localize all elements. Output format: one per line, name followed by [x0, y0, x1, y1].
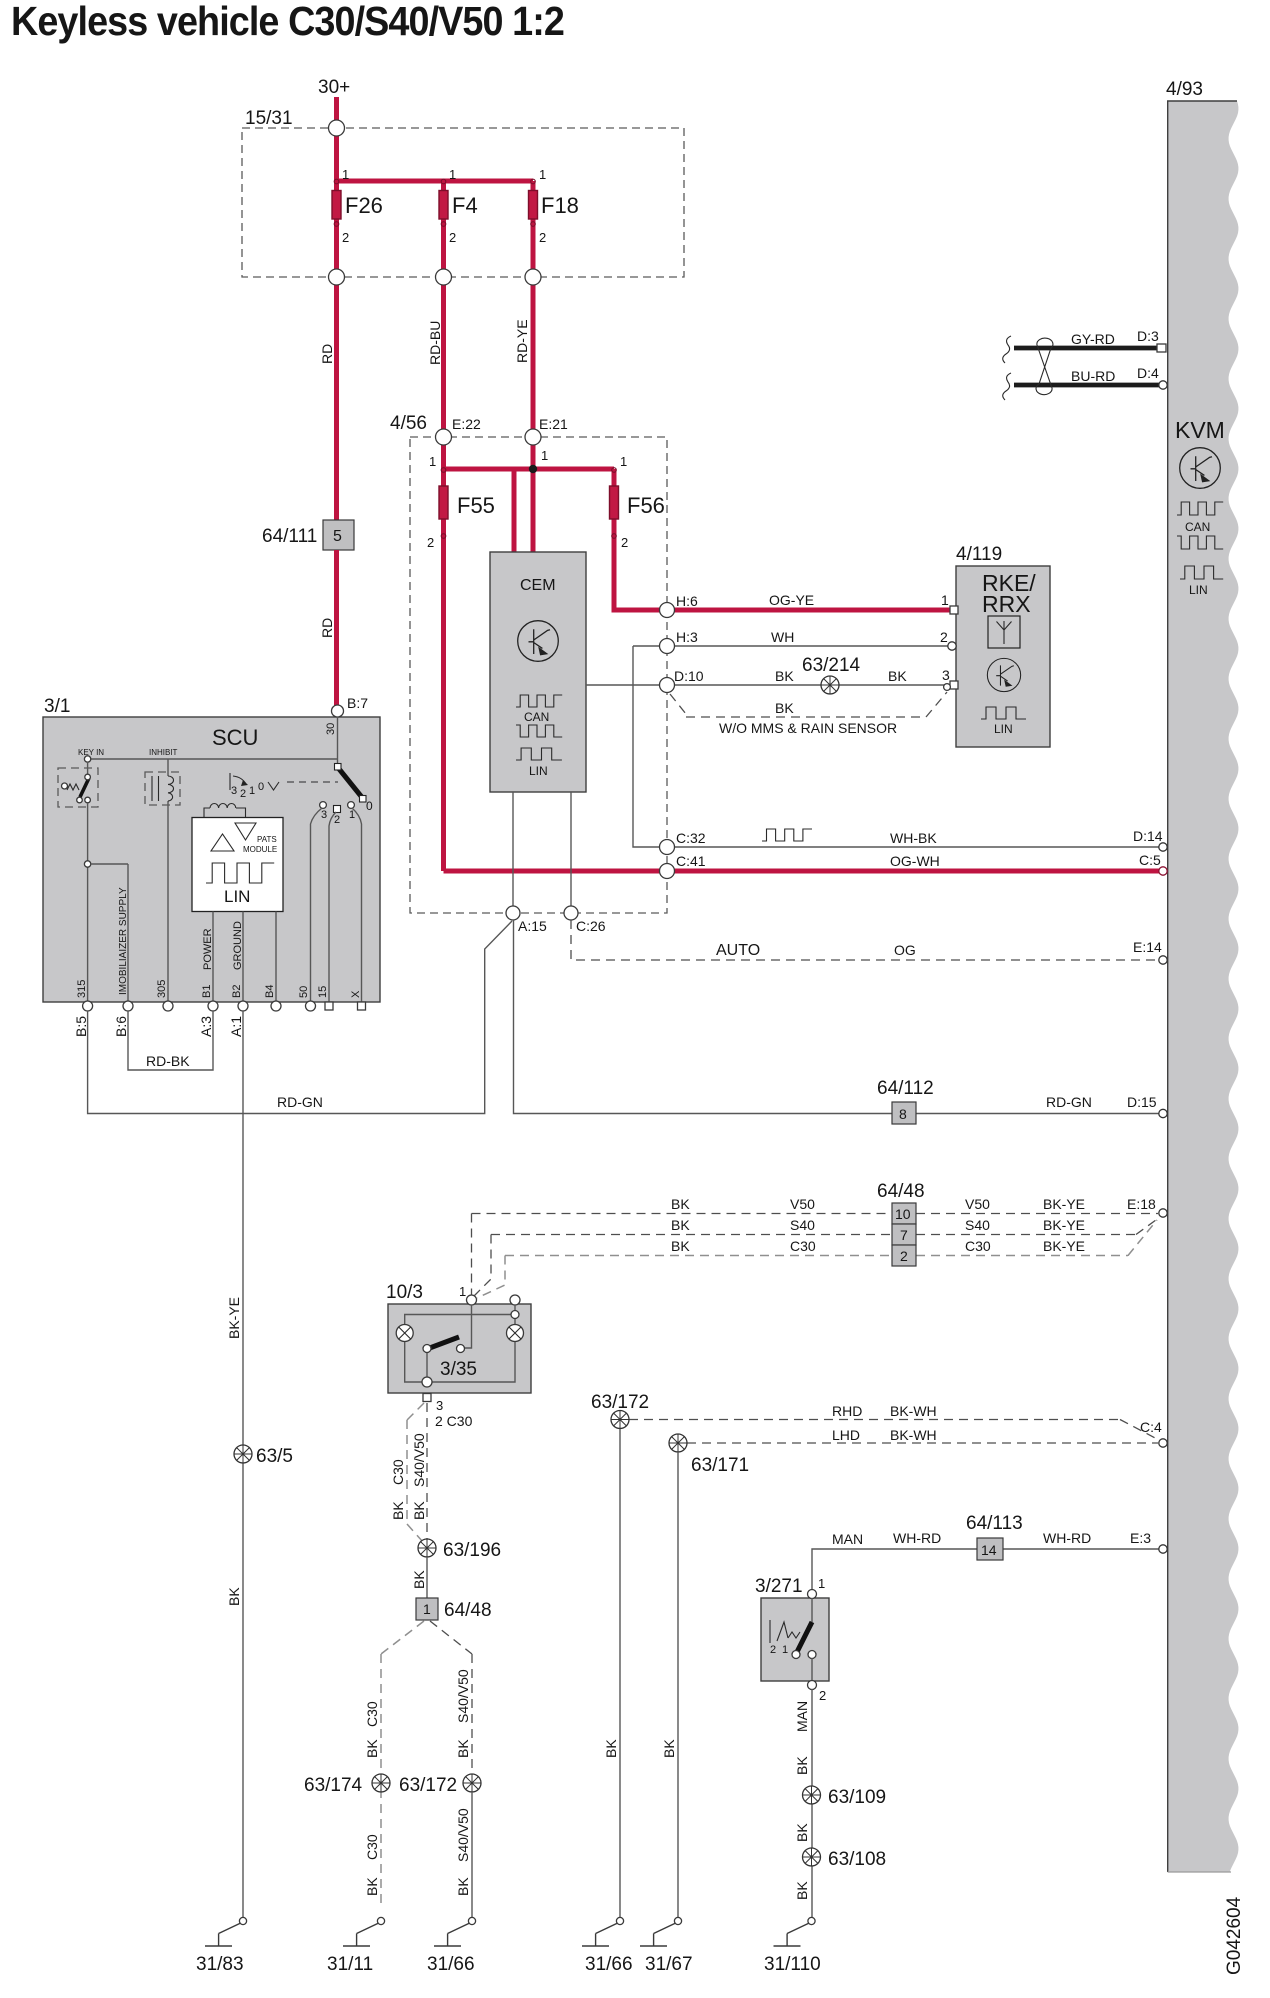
- svg-text:C30: C30: [364, 1834, 380, 1860]
- svg-text:CEM: CEM: [520, 577, 556, 594]
- svg-text:RRX: RRX: [982, 591, 1031, 617]
- svg-text:LHD: LHD: [832, 1427, 860, 1443]
- svg-text:OG: OG: [894, 942, 916, 958]
- svg-text:BK: BK: [364, 1739, 380, 1758]
- wire PATS B1: [212, 912, 214, 1004]
- svg-text:BU-RD: BU-RD: [1071, 368, 1115, 384]
- wire PATS B2: [242, 912, 244, 1004]
- wire LHD BK-WH dashed: [687, 1442, 1158, 1444]
- svg-text:15/31: 15/31: [245, 108, 293, 129]
- svg-text:63/171: 63/171: [691, 1455, 749, 1476]
- svg-text:BK-WH: BK-WH: [890, 1427, 937, 1443]
- svg-text:LIN: LIN: [529, 764, 548, 778]
- svg-text:KVM: KVM: [1175, 417, 1225, 443]
- wire 315: [87, 803, 89, 1003]
- node F26 out: [329, 269, 345, 285]
- svg-text:15: 15: [317, 986, 329, 998]
- svg-text:A:3: A:3: [198, 1016, 214, 1037]
- svg-text:2: 2: [449, 230, 456, 245]
- svg-text:64/48: 64/48: [877, 1181, 925, 1202]
- svg-text:D:4: D:4: [1137, 365, 1159, 381]
- svg-text:BK-YE: BK-YE: [226, 1297, 242, 1339]
- svg-text:GROUND: GROUND: [232, 921, 244, 970]
- svg-text:C:5: C:5: [1139, 852, 1161, 868]
- splice 63/109: [803, 1786, 821, 1804]
- svg-text:G042604: G042604: [1224, 1896, 1245, 1975]
- svg-text:1: 1: [782, 1644, 788, 1656]
- svg-text:E:14: E:14: [1133, 939, 1162, 955]
- svg-text:1: 1: [449, 167, 456, 182]
- ground 31/67: [640, 1917, 682, 1946]
- node branch imob supply: [84, 861, 90, 867]
- wire SCU keyin bus: [88, 758, 338, 760]
- ECU box 3/1 SCU: [43, 717, 380, 1002]
- connector 64/113 pin 14: [977, 1538, 1003, 1560]
- wire RD-GN right run from A:15: [514, 920, 1164, 1114]
- wire F18 drop: [531, 181, 536, 437]
- svg-text:64/48: 64/48: [444, 1600, 492, 1621]
- svg-text:BK: BK: [888, 668, 907, 684]
- svg-text:B2: B2: [231, 985, 243, 998]
- wire BK S40 dashed row: [491, 1217, 1160, 1235]
- svg-text:31/66: 31/66: [427, 1954, 475, 1975]
- svg-text:7: 7: [900, 1227, 908, 1243]
- svg-text:BK-YE: BK-YE: [1043, 1238, 1085, 1254]
- wire MAN WH-RD to E:3: [812, 1549, 1163, 1592]
- svg-text:BK: BK: [390, 1501, 406, 1520]
- svg-text:2: 2: [819, 1688, 826, 1703]
- svg-text:E:22: E:22: [452, 416, 481, 432]
- connector 64/112 pin 8: [892, 1102, 916, 1124]
- svg-text:1: 1: [429, 454, 436, 469]
- switch ignition position symbol: [229, 773, 231, 790]
- svg-text:64/111: 64/111: [262, 526, 317, 547]
- KVM LIN symbol: [1180, 566, 1223, 579]
- CEM K icon: [518, 621, 559, 662]
- PATS module box: [192, 818, 283, 912]
- wire V50 drop to 10/3 pin1: [471, 1214, 473, 1296]
- wire RD-BK loop B:6 to A:3: [128, 1011, 213, 1070]
- svg-text:B:6: B:6: [113, 1016, 129, 1037]
- node D:10: [660, 678, 675, 693]
- wire 30+ feed (RD): [334, 97, 339, 520]
- splice 63/108: [803, 1848, 821, 1866]
- svg-text:8: 8: [899, 1106, 907, 1122]
- ground 31/66: [434, 1917, 476, 1946]
- svg-text:Keyless vehicle C30/S40/V50 1:: Keyless vehicle C30/S40/V50 1:2: [11, 0, 564, 44]
- wire BK V50 dashed row: [472, 1213, 1159, 1215]
- svg-text:PATS: PATS: [257, 835, 277, 844]
- svg-text:BK: BK: [794, 1823, 810, 1842]
- svg-text:1: 1: [539, 167, 546, 182]
- node H:3: [660, 639, 675, 654]
- svg-text:BK: BK: [794, 1756, 810, 1775]
- wire RD-YE through E:21 to CEM: [531, 437, 536, 552]
- svg-text:1: 1: [249, 785, 255, 797]
- wire RHD BK-WH dashed: [629, 1420, 1159, 1441]
- wire C30 drop from pin 3 (grey dashed): [407, 1403, 424, 1542]
- svg-text:B:5: B:5: [73, 1016, 89, 1037]
- svg-text:31/11: 31/11: [327, 1954, 373, 1975]
- svg-text:D:14: D:14: [1133, 828, 1163, 844]
- svg-text:B:7: B:7: [347, 695, 368, 711]
- ground 31/11: [343, 1917, 385, 1946]
- wire GY-RD (thick, to D:3): [1014, 346, 1160, 351]
- svg-text:C30: C30: [364, 1701, 380, 1727]
- svg-text:3/1: 3/1: [44, 696, 70, 717]
- svg-text:F55: F55: [457, 493, 495, 518]
- connector 64/111 pin 5: [323, 520, 354, 550]
- svg-text:1: 1: [541, 448, 548, 463]
- wire contact 1 to pin X: [352, 808, 362, 1003]
- pin 3 bottom: [423, 1394, 431, 1402]
- svg-text:C30: C30: [965, 1238, 991, 1254]
- RKE LIN symbol: [981, 707, 1026, 719]
- wire BU-RD (thick, to D:4): [1014, 383, 1159, 388]
- svg-text:31/110: 31/110: [764, 1954, 821, 1975]
- svg-text:C30: C30: [790, 1238, 816, 1254]
- node pin1 10/3: [467, 1295, 477, 1305]
- svg-text:BK: BK: [411, 1501, 427, 1520]
- svg-text:1: 1: [342, 167, 349, 182]
- wire split below 64/48: [381, 1621, 424, 1905]
- node E:21: [525, 429, 541, 445]
- svg-text:F4: F4: [452, 193, 478, 218]
- svg-text:WH-RD: WH-RD: [893, 1530, 941, 1546]
- svg-text:BK: BK: [226, 1587, 242, 1606]
- svg-text:F26: F26: [345, 193, 383, 218]
- svg-text:F18: F18: [541, 193, 579, 218]
- svg-text:30+: 30+: [318, 77, 350, 98]
- node F18 out: [525, 269, 541, 285]
- svg-text:WH: WH: [771, 629, 794, 645]
- splice 63/174: [372, 1774, 390, 1792]
- svg-text:64/112: 64/112: [877, 1078, 934, 1099]
- svg-text:BK-YE: BK-YE: [1043, 1217, 1085, 1233]
- wire H:3 branch down to C:32: [633, 646, 660, 847]
- wire F55 to C:41 run: [441, 519, 446, 871]
- svg-text:H:3: H:3: [676, 629, 698, 645]
- node pin 1: [808, 1590, 817, 1599]
- svg-text:INHIBIT: INHIBIT: [149, 748, 178, 757]
- svg-text:C:32: C:32: [676, 830, 706, 846]
- svg-text:BK-YE: BK-YE: [1043, 1196, 1085, 1212]
- terminal D:14: [1159, 843, 1167, 851]
- KVM CAN symbol: [1177, 502, 1223, 515]
- svg-text:1: 1: [818, 1576, 825, 1591]
- node H:6: [660, 603, 675, 618]
- pin 3 square: [950, 681, 958, 689]
- connector 64/48 pins 10/7/2: [892, 1203, 916, 1224]
- svg-text:63/108: 63/108: [828, 1849, 886, 1870]
- CEM LIN symbol: [516, 748, 562, 760]
- fuse F4: [439, 191, 448, 220]
- svg-text:BK-WH: BK-WH: [890, 1403, 937, 1419]
- svg-text:A:15: A:15: [518, 918, 547, 934]
- wire RD to SCU: [334, 550, 339, 706]
- svg-text:305: 305: [156, 980, 168, 998]
- svg-text:H:6: H:6: [676, 593, 698, 609]
- svg-text:BK: BK: [661, 1739, 677, 1758]
- svg-text:2: 2: [940, 629, 948, 645]
- ECU box 4/119 RKE/RRX: [956, 566, 1050, 747]
- connector 64/48 pin 1: [416, 1598, 438, 1620]
- switch contacts 3 2 1: [320, 802, 327, 809]
- svg-text:RHD: RHD: [832, 1403, 862, 1419]
- terminal C:4: [1159, 1439, 1167, 1447]
- svg-text:BK: BK: [455, 1739, 471, 1758]
- node 15/31 top connector: [329, 120, 345, 136]
- wire CEM feed 1: [512, 469, 517, 552]
- switch SCU main (30) arm: [338, 767, 363, 798]
- wire imobiliaizer supply: [91, 864, 128, 1003]
- svg-text:BK: BK: [671, 1217, 690, 1233]
- svg-text:RD-GN: RD-GN: [1046, 1094, 1092, 1110]
- fuse F56: [610, 486, 619, 519]
- svg-text:RD-BU: RD-BU: [427, 321, 443, 365]
- connector housing 4/56 dashed box: [410, 437, 667, 913]
- wire fuse bus: [337, 179, 534, 184]
- RKE K icon: [987, 658, 1020, 691]
- svg-text:63/196: 63/196: [443, 1540, 501, 1561]
- CEM CAN symbol: [516, 695, 562, 707]
- svg-text:1: 1: [620, 454, 627, 469]
- svg-text:SCU: SCU: [212, 725, 258, 750]
- svg-text:S40/V50: S40/V50: [455, 1808, 471, 1862]
- svg-text:3: 3: [942, 667, 950, 683]
- svg-text:E:3: E:3: [1130, 1530, 1151, 1546]
- svg-text:S40/V50: S40/V50: [455, 1669, 471, 1723]
- svg-text:BK: BK: [411, 1570, 427, 1589]
- svg-text:3/271: 3/271: [755, 1576, 803, 1597]
- svg-text:63/172: 63/172: [591, 1392, 649, 1413]
- svg-text:IMOBILIAIZER SUPPLY: IMOBILIAIZER SUPPLY: [118, 887, 129, 995]
- svg-text:LIN: LIN: [1189, 583, 1208, 597]
- SCU bottom pins: [83, 1001, 93, 1011]
- wire BK C30 dashed row (grey): [505, 1220, 1157, 1256]
- svg-text:14: 14: [981, 1542, 997, 1558]
- node C:26: [564, 906, 578, 920]
- wire C30 drop (grey): [477, 1256, 505, 1299]
- terminal D:3 square: [1157, 344, 1166, 352]
- svg-text:B1: B1: [201, 985, 213, 998]
- svg-text:2: 2: [334, 814, 340, 826]
- svg-text:D:15: D:15: [1127, 1094, 1157, 1110]
- splice 63/196: [418, 1539, 436, 1557]
- wire CEM to C:26: [570, 792, 572, 906]
- wire AUTO OG dashed: [571, 920, 1163, 960]
- svg-text:POWER: POWER: [202, 928, 214, 970]
- svg-text:50: 50: [298, 986, 310, 998]
- svg-text:4/56: 4/56: [390, 413, 427, 434]
- svg-text:KEY IN: KEY IN: [78, 748, 104, 757]
- junction dot E:21/bus: [529, 465, 537, 473]
- svg-text:BK: BK: [364, 1877, 380, 1896]
- wire fuse link bus F55-F56: [444, 467, 615, 472]
- ground 31/110: [774, 1917, 816, 1946]
- antenna symbol: [988, 616, 1020, 648]
- svg-text:S40: S40: [965, 1217, 990, 1233]
- switch internals: [811, 1598, 813, 1622]
- node A:15: [506, 906, 520, 920]
- wire RD-BU through E:22 and F55: [441, 437, 446, 486]
- svg-text:E:21: E:21: [539, 416, 568, 432]
- svg-text:BK: BK: [775, 668, 794, 684]
- terminal E:14: [1159, 956, 1167, 964]
- svg-text:RD-YE: RD-YE: [514, 319, 530, 363]
- svg-text:A:1: A:1: [228, 1016, 244, 1037]
- svg-text:RD: RD: [319, 344, 335, 364]
- svg-text:2: 2: [770, 1644, 776, 1656]
- svg-text:C30: C30: [390, 1459, 406, 1485]
- inductor PATS antenna coil: [204, 808, 210, 817]
- svg-text:2: 2: [240, 788, 246, 800]
- wire PATS B4: [275, 912, 277, 1004]
- wire BK S40/V50 to ground: [471, 1792, 473, 1917]
- svg-text:WH-BK: WH-BK: [890, 830, 937, 846]
- twisted pair symbol: [1036, 338, 1053, 395]
- wire F56 to H:6: [614, 469, 952, 610]
- fuse F26: [332, 191, 341, 220]
- lamp unit 10/3 box: [388, 1304, 531, 1393]
- cable cut hooks: [1003, 336, 1011, 363]
- svg-text:63/214: 63/214: [802, 655, 861, 676]
- terminal E:3: [1159, 1545, 1167, 1553]
- svg-text:2: 2: [539, 230, 546, 245]
- svg-text:4/119: 4/119: [956, 544, 1002, 565]
- svg-text:OG-WH: OG-WH: [890, 853, 940, 869]
- node C:41: [660, 864, 675, 879]
- svg-text:4/93: 4/93: [1166, 79, 1203, 100]
- svg-text:10: 10: [895, 1206, 911, 1222]
- wire BK-YE from A:1 to ground 31/83: [242, 1011, 244, 1917]
- svg-text:F56: F56: [627, 493, 665, 518]
- svg-text:OG-YE: OG-YE: [769, 592, 814, 608]
- svg-text:63/174: 63/174: [304, 1775, 363, 1796]
- ECU box CEM: [490, 552, 586, 792]
- svg-text:CAN: CAN: [1185, 520, 1210, 534]
- svg-text:CAN: CAN: [524, 710, 549, 724]
- svg-text:315: 315: [76, 980, 88, 998]
- svg-text:63/172: 63/172: [399, 1775, 457, 1796]
- wire WH H:3 to RKE pin2: [633, 645, 952, 647]
- wire W/O MMS dashed bypass: [670, 692, 947, 717]
- fuse F18: [529, 191, 538, 220]
- wire S40/V50 drop from pin 3: [426, 1403, 428, 1539]
- svg-text:0: 0: [258, 781, 264, 793]
- wire OG-WH C:41 to KVM C:5: [444, 869, 1164, 874]
- svg-text:0: 0: [366, 799, 373, 813]
- svg-text:2 C30: 2 C30: [435, 1413, 473, 1429]
- svg-text:BK: BK: [671, 1196, 690, 1212]
- ground 31/83: [205, 1917, 247, 1946]
- svg-text:C:4: C:4: [1140, 1419, 1162, 1435]
- pin 1 square: [950, 606, 958, 614]
- splice 63/214: [821, 676, 839, 694]
- terminal E:18: [1159, 1209, 1167, 1217]
- fusebox 15/31 dashed outline: [242, 128, 684, 277]
- svg-text:31/66: 31/66: [585, 1954, 633, 1975]
- node B:7: [332, 705, 344, 717]
- svg-text:10/3: 10/3: [386, 1282, 423, 1303]
- wire BK D:10 to RKE pin3: [586, 684, 952, 686]
- lamp left: [396, 1325, 413, 1342]
- KVM K icon: [1180, 448, 1221, 489]
- wire BK to ground 31/67: [677, 1452, 679, 1917]
- ground 31/66: [582, 1917, 624, 1946]
- svg-text:BK: BK: [455, 1877, 471, 1896]
- wire lamp loop: [405, 1305, 515, 1382]
- svg-text:W/O MMS & RAIN SENSOR: W/O MMS & RAIN SENSOR: [719, 720, 897, 736]
- svg-text:WH-RD: WH-RD: [1043, 1530, 1091, 1546]
- svg-text:GY-RD: GY-RD: [1071, 331, 1115, 347]
- svg-text:C:26: C:26: [576, 918, 606, 934]
- svg-text:S40: S40: [790, 1217, 815, 1233]
- svg-text:3/35: 3/35: [440, 1359, 477, 1380]
- terminal D:4: [1159, 381, 1167, 389]
- wire contact 3 to pin 50: [311, 808, 323, 1003]
- svg-text:RD: RD: [319, 618, 335, 638]
- svg-text:2: 2: [621, 535, 628, 550]
- splice 63/172 (lower): [463, 1774, 481, 1792]
- svg-text:D:3: D:3: [1137, 328, 1159, 344]
- svg-text:LIN: LIN: [994, 722, 1013, 736]
- terminal C:5: [1159, 867, 1167, 875]
- svg-text:MAN: MAN: [794, 1701, 810, 1732]
- svg-text:3: 3: [321, 809, 327, 821]
- svg-text:3: 3: [231, 785, 237, 797]
- svg-text:BK: BK: [603, 1739, 619, 1758]
- svg-text:1: 1: [941, 592, 949, 608]
- svg-text:63/109: 63/109: [828, 1787, 886, 1808]
- svg-text:E:18: E:18: [1127, 1196, 1156, 1212]
- wire BK to 64/48 pin1: [426, 1557, 428, 1598]
- wire F4 drop: [441, 181, 446, 437]
- svg-text:30: 30: [325, 723, 337, 735]
- svg-text:64/113: 64/113: [966, 1513, 1023, 1534]
- svg-text:2: 2: [427, 535, 434, 550]
- svg-text:1: 1: [423, 1601, 431, 1617]
- svg-text:X: X: [350, 990, 362, 998]
- node E:22: [436, 429, 452, 445]
- svg-text:V50: V50: [790, 1196, 815, 1212]
- svg-text:1: 1: [459, 1284, 466, 1299]
- wire S40 drop: [474, 1235, 491, 1297]
- wire WH-BK C:32 to D:14: [674, 846, 1163, 848]
- svg-text:31/67: 31/67: [645, 1954, 693, 1975]
- svg-text:BK: BK: [794, 1881, 810, 1900]
- terminal D:15: [1159, 1109, 1167, 1117]
- svg-text:2: 2: [342, 230, 349, 245]
- svg-text:31/83: 31/83: [196, 1954, 244, 1975]
- node pin right 10/3: [510, 1295, 520, 1305]
- svg-text:V50: V50: [965, 1196, 990, 1212]
- ECU bar 4/93 KVM: [1168, 101, 1239, 1872]
- switch 3/35 arm: [427, 1305, 472, 1382]
- svg-text:3: 3: [436, 1398, 443, 1413]
- svg-text:LIN: LIN: [224, 887, 250, 906]
- wire SCU 30 internal: [337, 717, 339, 764]
- wire BK to ground 31/66 mid: [619, 1429, 621, 1917]
- node C:32: [660, 840, 675, 855]
- svg-text:63/5: 63/5: [256, 1446, 293, 1467]
- svg-text:BK: BK: [775, 700, 794, 716]
- svg-text:B4: B4: [264, 985, 276, 998]
- svg-text:MODULE: MODULE: [243, 845, 277, 854]
- svg-text:5: 5: [333, 528, 342, 545]
- svg-text:MAN: MAN: [832, 1531, 863, 1547]
- svg-text:2: 2: [900, 1248, 908, 1264]
